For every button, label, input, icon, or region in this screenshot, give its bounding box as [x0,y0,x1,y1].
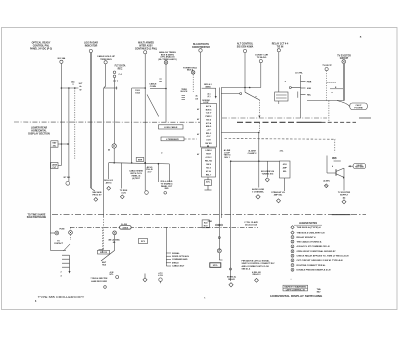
svg-text:LOG RADAR: LOG RADAR [84,42,98,45]
svg-text:CONTINUED (1 PNL): CONTINUED (1 PNL) [135,48,158,50]
svg-text:2ND: 2ND [164,188,169,190]
svg-text:SW NO: SW NO [205,143,212,145]
svg-text:LINE 4: LINE 4 [206,149,213,152]
svg-text:TX BLDG: TX BLDG [257,57,267,59]
svg-text:ANT 4: ANT 4 [106,182,113,185]
svg-text:PWR 2: PWR 2 [206,116,212,118]
svg-text:(4 ANT): (4 ANT) [323,180,330,183]
svg-text:4MP SEL: 4MP SEL [274,193,283,196]
svg-text:4 CH: 4 CH [158,274,163,277]
svg-text:4 CH: 4 CH [206,139,211,142]
svg-text:INDICATOR: INDICATOR [85,45,98,48]
svg-text:4 TERMINATE: 4 TERMINATE [166,138,179,141]
svg-text:SEE 41-4: SEE 41-4 [242,268,251,271]
svg-text:PROG SY: PROG SY [92,194,102,196]
svg-text:(4) TEST: (4) TEST [132,177,141,180]
svg-text:5: 5 [292,256,293,258]
svg-text:A CTRL: A CTRL [295,72,303,75]
svg-text:DOUBLE PRECISE EXAMPLE 4 LM: DOUBLE PRECISE EXAMPLE 4 LM [297,269,331,272]
svg-text:INTER ASSY: INTER ASSY [139,45,153,48]
svg-text:TERM BUS: TERM BUS [100,59,112,61]
svg-text:SUPPLY: SUPPLY [340,194,349,196]
svg-text:4CH: 4CH [283,163,287,166]
svg-text:SIGN SWITCHING: SIGN SWITCHING [27,217,47,219]
svg-text:TYPE 685 CROLLERCOPY: TYPE 685 CROLLERCOPY [38,295,85,299]
svg-text:MXR: MXR [138,160,143,162]
svg-text:LEGEND NOTES: LEGEND NOTES [299,223,318,225]
svg-text:FWD: FWD [208,221,213,223]
svg-text:45: 45 [108,149,110,152]
svg-text:REC: REC [118,68,123,70]
svg-text:7 RUN 4 2ND TRK: 7 RUN 4 2ND TRK [91,277,108,280]
svg-text:PWR: PWR [307,82,312,84]
svg-text:REL 2: REL 2 [206,133,211,135]
svg-text:W: W [80,90,82,92]
svg-text:AMP: AMP [283,166,288,169]
svg-text:A BUS: A BUS [123,227,129,230]
svg-text:TV EXCIT: TV EXCIT [322,65,332,67]
svg-text:1 CHANNEL: 1 CHANNEL [252,191,265,194]
svg-text:FLT DATA: FLT DATA [115,65,126,68]
svg-text:RELAY JCT 4-4: RELAY JCT 4-4 [272,43,289,46]
svg-text:OPTICAL READY: OPTICAL READY [32,42,51,45]
svg-text:THE BUS 4 CMSLNTRY LM: THE BUS 4 CMSLNTRY LM [297,231,325,234]
svg-text:8: 8 [292,270,293,272]
svg-text:4HNLD: 4HNLD [172,261,179,264]
svg-text:HORIZONTAL DISPLAY SWITCHING: HORIZONTAL DISPLAY SWITCHING [270,294,322,298]
svg-text:CLAMP 2: CLAMP 2 [248,152,258,155]
svg-text:LOOP: LOOP [203,102,209,104]
svg-text:SWITCH CONTROL CONNECT RLY: SWITCH CONTROL CONNECT RLY [242,263,276,265]
svg-text:CONN: CONN [150,86,157,88]
svg-text:TEST: TEST [206,154,212,156]
svg-text:DISPLAY SECTION: DISPLAY SECTION [28,132,50,135]
svg-text:ROUTINE CONNECT PER 4L: ROUTINE CONNECT PER 4L [297,264,327,267]
svg-text:FUSE: FUSE [59,228,65,230]
svg-text:PANEL 24 VDC (P-3): PANEL 24 VDC (P-3) [30,47,52,50]
svg-text:4 CH 2: 4 CH 2 [206,156,212,159]
svg-text:AND 4 COMBAT LMTS CLOK: AND 4 COMBAT LMTS CLOK [242,265,270,268]
svg-text:REL NO: REL NO [205,161,213,163]
svg-text:SAFETY WARNING: SAFETY WARNING [284,286,307,289]
svg-text:RELAY MOUNT 4: RELAY MOUNT 4 [297,236,317,239]
svg-text:4 LN: 4 LN [121,191,126,194]
svg-text:BUS 4: BUS 4 [206,108,213,111]
svg-text:7: 7 [292,265,293,267]
svg-text:SIGNAL: SIGNAL [172,252,180,255]
svg-text:WORD OPTN 4LN: WORD OPTN 4LN [172,255,189,258]
svg-text:COMMAND AND: COMMAND AND [172,258,188,261]
svg-text:CHECK RELAY APPLIES TO, TIME L: CHECK RELAY APPLIES TO, TIME LY NW 41-4 … [297,255,349,258]
svg-text:THE BUS A (TYPE) 4: THE BUS A (TYPE) 4 [297,226,322,229]
svg-text:4 PI A: 4 PI A [206,122,212,125]
svg-text:THE CABLE 4 TUNING A: THE CABLE 4 TUNING A [297,240,323,243]
svg-text:CONTROL PNL: CONTROL PNL [33,46,50,48]
svg-text:2ND RX: 2ND RX [100,252,108,254]
svg-text:ZD-41-51 LB: ZD-41-51 LB [245,223,258,226]
svg-text:OPEN GROUP CONDITIONAL GROUND: OPEN GROUP CONDITIONAL GROUND RY [297,250,337,253]
svg-text:(4 ): (4 ) [208,95,211,98]
svg-text:4L ARM: 4L ARM [248,150,256,153]
svg-text:(BL TIMING ASSY): (BL TIMING ASSY) [158,58,176,61]
svg-text:NO 344: NO 344 [58,57,66,60]
svg-text:C TEL 15 AVE: C TEL 15 AVE [244,221,258,224]
svg-text:1: 1 [292,237,293,239]
svg-text:4: 4 [332,165,333,168]
svg-text:TO TIME SHARE: TO TIME SHARE [28,213,46,216]
svg-text:RELAY 2: RELAY 2 [253,273,261,276]
svg-text:CABLE 4SLT: CABLE 4SLT [172,265,185,268]
svg-text:6: 6 [292,260,293,262]
svg-text:CABLE HOLD UP: CABLE HOLD UP [97,55,116,58]
svg-text:MULTI ARMED: MULTI ARMED [138,42,154,45]
svg-text:CKT CIRCUIT GROUND LY NW 41 T: CKT CIRCUIT GROUND LY NW 41 TYPE 4LN [297,259,344,262]
svg-text:TIE IN: TIE IN [277,47,284,49]
svg-text:7-41 V: 7-41 V [206,112,212,115]
svg-text:SIG GEN 4SMA: SIG GEN 4SMA [237,46,254,49]
svg-text:SPCL: SPCL [213,265,219,267]
svg-text:2: 2 [292,241,293,243]
svg-text:ALT CONTROL: ALT CONTROL [237,43,254,46]
svg-text:4 IN ACCL NT COMBINE OR LN: 4 IN ACCL NT COMBINE OR LN [297,245,331,248]
svg-text:(4 ): (4 ) [208,92,211,95]
svg-text:4CTL: 4CTL [206,180,210,183]
svg-text:PER ABOVE LMT 4-2 SIGNAL: PER ABOVE LMT 4-2 SIGNAL [242,260,271,263]
svg-text:LANE RECOVER: LANE RECOVER [91,280,107,283]
svg-text:SEL 1: SEL 1 [224,157,230,159]
svg-text:+: + [290,279,291,281]
svg-text:41 SL: 41 SL [206,170,212,173]
svg-text:BUS 4: BUS 4 [187,69,194,72]
svg-text:RELAY: RELAY [228,278,235,281]
svg-text:REL 7: REL 7 [206,174,211,176]
svg-text:7EA: 7EA [102,263,106,266]
svg-text:LEFT CONTROL 41: LEFT CONTROL 41 [286,288,305,291]
svg-text:2: 2 [60,272,61,274]
svg-text:FT3 WHE: FT3 WHE [354,108,363,110]
svg-text:(E): (E) [343,198,346,200]
svg-text:CONTACT: CONTACT [54,242,64,245]
svg-text:TEST WIRE: TEST WIRE [355,167,364,169]
svg-text:TUNING SIG: TUNING SIG [262,173,274,175]
svg-text:BLOCK: BLOCK [181,91,188,93]
svg-text:4SB: 4SB [307,87,311,90]
svg-text:N7 361: N7 361 [64,177,72,179]
svg-text:3: 3 [292,246,293,248]
svg-text:LONG CABLE: LONG CABLE [164,126,178,129]
svg-text:BLACKTOOTH: BLACKTOOTH [193,43,209,46]
svg-text:ANLG: ANLG [206,125,212,128]
